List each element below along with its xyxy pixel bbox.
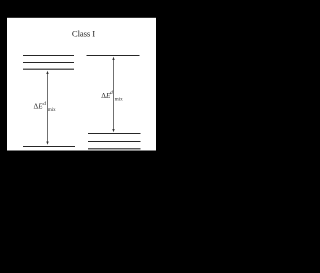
right gap label dE mix — [101, 90, 123, 103]
svg-text:d: d — [110, 90, 113, 96]
energy level R2c (right lower group line 3) — [88, 148, 141, 150]
left gap label dE mix — [34, 101, 57, 113]
svg-text:mix: mix — [115, 97, 123, 103]
energy level L1b (left upper group line 2) — [23, 62, 74, 64]
energy level L1c (left upper group line 3) — [23, 68, 74, 70]
white figure panel — [7, 18, 156, 151]
svg-text:ΔE: ΔE — [34, 102, 44, 111]
right double-headed arrow — [112, 57, 114, 132]
energy level L1a (left upper group line 1) — [23, 55, 74, 57]
svg-text:d: d — [43, 101, 46, 107]
left double-headed arrow — [46, 71, 48, 145]
energy level R2b (right lower group line 2) — [88, 141, 141, 143]
energy level R1 (right upper single line) — [87, 55, 140, 57]
svg-text:mix: mix — [48, 108, 56, 113]
energy level L2 (left lower single line) — [23, 146, 75, 148]
svg-text:Class I: Class I — [72, 29, 95, 39]
energy level R2a (right lower group line 1) — [88, 133, 141, 135]
black page background — [0, 0, 211, 273]
